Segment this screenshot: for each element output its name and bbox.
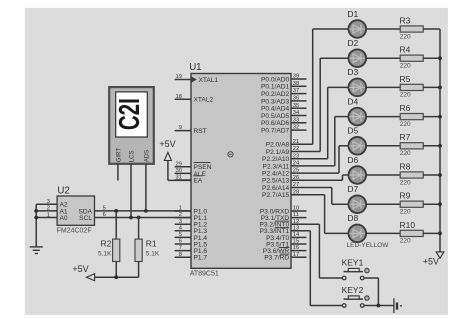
- svg-text:SCL: SCL: [79, 215, 92, 222]
- svg-text:220: 220: [400, 121, 411, 128]
- svg-text:D1: D1: [347, 9, 358, 19]
- svg-text:D2: D2: [347, 38, 358, 48]
- svg-text:P2.0/A8: P2.0/A8: [266, 142, 290, 149]
- svg-text:LCS: LCS: [128, 150, 135, 162]
- svg-text:R7: R7: [400, 132, 411, 142]
- svg-text:D6: D6: [347, 155, 358, 165]
- svg-text:KEY2: KEY2: [342, 285, 364, 295]
- svg-text:R9: R9: [400, 191, 411, 201]
- svg-text:FM24C02F: FM24C02F: [57, 228, 92, 235]
- svg-text:2: 2: [47, 206, 50, 212]
- svg-text:7: 7: [179, 245, 182, 251]
- svg-text:P0.1/AD1: P0.1/AD1: [261, 84, 290, 91]
- svg-text:29: 29: [176, 161, 182, 167]
- svg-text:9: 9: [179, 125, 182, 131]
- svg-text:P2.7/A15: P2.7/A15: [262, 192, 289, 199]
- svg-text:KEY1: KEY1: [342, 257, 364, 267]
- svg-text:U2: U2: [57, 185, 69, 196]
- svg-text:220: 220: [400, 92, 411, 99]
- svg-text:XTAL1: XTAL1: [199, 77, 219, 84]
- svg-text:R5: R5: [400, 74, 411, 84]
- svg-text:U1: U1: [189, 62, 201, 73]
- svg-text:R1: R1: [146, 238, 157, 248]
- svg-text:R6: R6: [400, 103, 411, 113]
- svg-text:220: 220: [400, 150, 411, 157]
- svg-text:EA: EA: [194, 177, 203, 184]
- svg-text:GIRT: GIRT: [115, 148, 122, 163]
- svg-text:R8: R8: [400, 161, 411, 171]
- svg-text:R10: R10: [400, 220, 416, 230]
- svg-text:R3: R3: [400, 15, 411, 25]
- svg-text:P0.2/AD2: P0.2/AD2: [261, 91, 290, 98]
- svg-text:LED-YELLOW: LED-YELLOW: [347, 242, 390, 249]
- svg-text:220: 220: [400, 209, 411, 216]
- svg-text:D4: D4: [347, 96, 358, 106]
- svg-text:P2.6/A14: P2.6/A14: [262, 185, 289, 192]
- svg-text:A0: A0: [60, 215, 68, 222]
- svg-text:3: 3: [47, 199, 50, 205]
- svg-text:R2: R2: [101, 238, 112, 248]
- svg-text:D7: D7: [347, 184, 358, 194]
- svg-text:P2.3/A11: P2.3/A11: [263, 163, 290, 170]
- svg-text:P0.7/AD7: P0.7/AD7: [261, 128, 290, 135]
- svg-text:5.1K: 5.1K: [146, 251, 160, 258]
- svg-text:1: 1: [47, 212, 50, 218]
- svg-text:P2.4/A12: P2.4/A12: [262, 171, 289, 178]
- svg-text:D8: D8: [347, 213, 358, 223]
- svg-text:P1.7: P1.7: [194, 255, 208, 262]
- svg-text:ADS: ADS: [143, 150, 150, 163]
- svg-text:P0.5/AD5: P0.5/AD5: [261, 113, 290, 120]
- svg-text:5: 5: [179, 232, 182, 238]
- svg-text:30: 30: [176, 168, 182, 174]
- svg-text:220: 220: [400, 179, 411, 186]
- svg-text:+5V: +5V: [72, 264, 88, 274]
- svg-text:P0.6/AD6: P0.6/AD6: [261, 120, 290, 127]
- svg-text:P0.4/AD4: P0.4/AD4: [261, 106, 290, 113]
- svg-text:+5V: +5V: [423, 257, 439, 267]
- svg-text:R4: R4: [400, 45, 411, 55]
- svg-text:5.1K: 5.1K: [98, 251, 112, 258]
- svg-text:D3: D3: [347, 67, 358, 77]
- svg-text:P2.5/A13: P2.5/A13: [262, 178, 289, 185]
- svg-text:3: 3: [179, 219, 182, 225]
- svg-text:P3.7/RD: P3.7/RD: [264, 255, 289, 262]
- svg-text:AT89C51: AT89C51: [190, 271, 219, 278]
- svg-text:D5: D5: [347, 126, 358, 136]
- svg-text:220: 220: [400, 238, 411, 245]
- svg-text:P0.3/AD3: P0.3/AD3: [261, 98, 290, 105]
- svg-text:P0.0/AD0: P0.0/AD0: [261, 76, 290, 83]
- svg-text:RST: RST: [194, 128, 207, 135]
- svg-text:8: 8: [179, 252, 182, 258]
- svg-text:P2.1/A9: P2.1/A9: [266, 149, 290, 156]
- svg-text:+5V: +5V: [159, 139, 175, 149]
- svg-text:P2.2/A10: P2.2/A10: [262, 156, 289, 163]
- svg-text:220: 220: [400, 63, 411, 70]
- svg-text:18: 18: [176, 94, 182, 100]
- svg-text:XTAL2: XTAL2: [194, 97, 214, 104]
- svg-text:220: 220: [400, 33, 411, 40]
- svg-text:19: 19: [176, 74, 182, 80]
- svg-text:C2I: C2I: [115, 98, 146, 130]
- svg-text:6: 6: [179, 239, 182, 245]
